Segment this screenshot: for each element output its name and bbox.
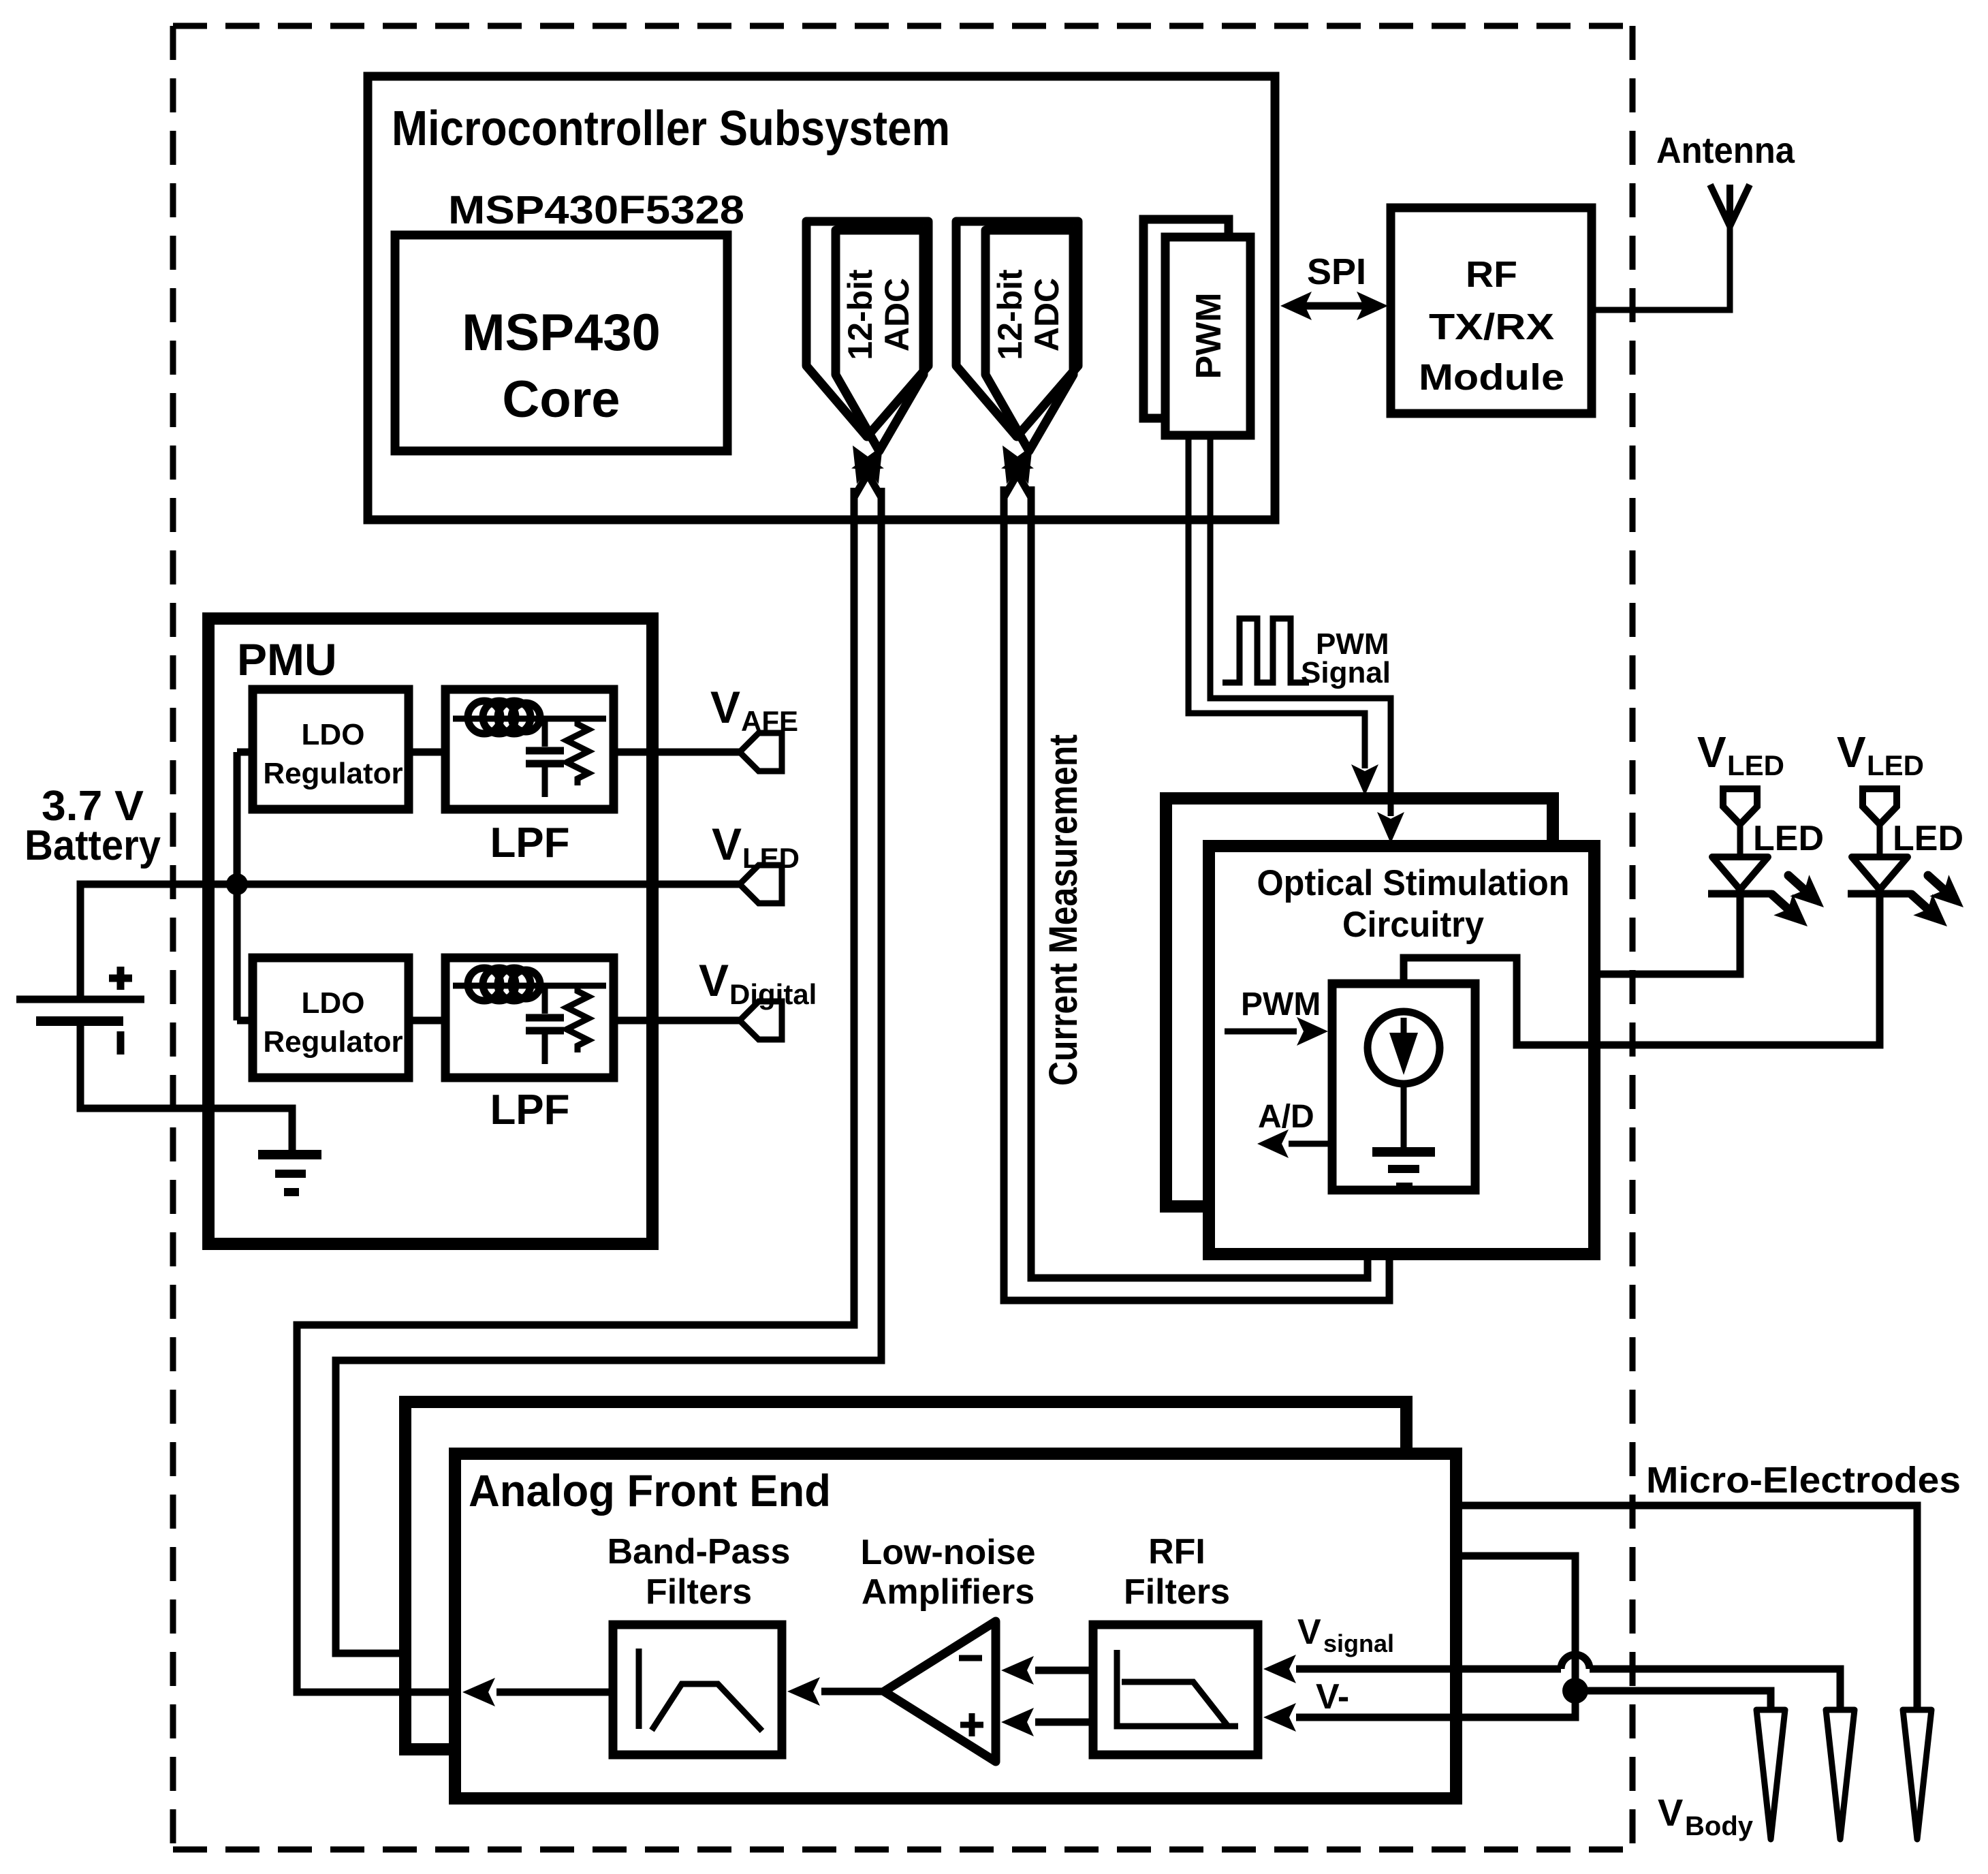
svg-text:PWM: PWM [1189,292,1229,379]
wire BPF output arrow (front channel) [496,1689,613,1696]
wire V- sense from AFE [1456,1556,1575,1689]
Microcontroller Subsystem box [368,76,1275,520]
svg-text:Core: Core [502,371,620,428]
svg-text:LPF: LPF [490,819,569,866]
wire battery+ to PMU rail [80,884,237,996]
node V- junction dot [1562,1678,1588,1704]
svg-text:signal: signal [1323,1629,1394,1657]
svg-text:Microcontroller Subsystem: Microcontroller Subsystem [392,101,950,156]
svg-text:LED: LED [1893,819,1963,858]
LED D1 emission arrows [1779,865,1833,918]
wire ADC2 input A with arrow [1004,463,1024,497]
svg-text:Low-noise: Low-noise [860,1533,1035,1572]
filter LPF2 box [445,958,614,1078]
svg-text:RFI: RFI [1148,1532,1205,1572]
redraw PWM arrow B tip over rear box edge [1388,804,1394,816]
regulator LDO2 [253,958,409,1078]
wire LDO2 to LPF2 [409,1017,445,1025]
svg-text:LPF: LPF [490,1087,569,1134]
svg-text:Digital: Digital [729,978,817,1010]
terminal VLED for D2 [1863,789,1897,824]
svg-text:PMU: PMU [237,634,337,685]
LED D1 diode [1712,857,1768,890]
SPI bus arrow [1293,302,1376,310]
Optical Stimulation Circuitry box (front) [1209,846,1594,1254]
MSP430 Core box U1 [395,235,727,451]
svg-text:AFE: AFE [741,705,798,737]
svg-text:Regulator: Regulator [263,757,403,790]
label RFI Filters [1124,1532,1230,1612]
wire micro-electrodes bus to electrode 3 [1456,1505,1917,1710]
band-pass filter block F1 [613,1625,782,1755]
wire junction to electrode 1 [1575,1691,1771,1710]
resistor R1 [567,719,588,785]
filter LPF1 box [445,689,614,809]
electrode E1 [1756,1710,1785,1839]
svg-text:A/D: A/D [1258,1099,1314,1135]
svg-text:Module: Module [1419,357,1564,398]
wire VLED rail [237,881,740,888]
wire PMU input rail [234,752,241,1020]
inductor L2 [468,968,540,1001]
current source I1 [1368,1012,1440,1084]
svg-text:12-bit: 12-bit [991,269,1029,360]
terminal VAFE [740,733,782,771]
wire LDO1 to LPF1 [409,749,445,756]
svg-text:Signal: Signal [1301,656,1391,689]
svg-text:LDO: LDO [302,986,365,1020]
ground (current source) [1372,1147,1435,1191]
wire LPF2 to VDigital terminal [614,1017,740,1025]
resistor R2 [567,986,588,1052]
current source box U2 [1332,984,1475,1190]
svg-text:Body: Body [1685,1811,1754,1841]
label 12-bit ADC (ADC1) [841,269,916,360]
svg-text:RF: RF [1466,254,1517,295]
LED D2 emission arrows [1919,865,1973,918]
svg-text:Antenna: Antenna [1656,130,1795,171]
svg-text:LDO: LDO [302,718,365,751]
wire RFI to op-amp minus with arrow [1035,1667,1093,1674]
svg-text:Micro-Electrodes: Micro-Electrodes [1646,1460,1961,1501]
RF TX/RX Module box [1391,208,1592,413]
svg-text:V: V [1697,728,1726,777]
wire RF module to antenna [1592,226,1730,310]
Analog Front End box (front) [455,1454,1456,1798]
wire PWM signal B (to front optical block) [1210,439,1391,816]
wire current measurement B (ADC2 right) [1031,486,1368,1278]
terminal VDigital [740,1001,782,1040]
inductor L1 [468,701,540,734]
svg-text:Analog Front End: Analog Front End [469,1465,831,1516]
implant boundary (dashed border) [173,26,1632,1849]
capacitor C2 [526,986,564,1064]
wire PWM input arrow [1225,1029,1297,1035]
terminal VLED [740,865,782,903]
svg-text:ADC: ADC [1028,278,1066,352]
wire LPF1 internal [453,716,606,722]
label Low-noise Amplifiers [860,1533,1035,1612]
electrode E2 [1826,1710,1855,1839]
svg-text:V: V [699,955,729,1005]
svg-text:V: V [710,682,740,732]
wire VLED terminal to D1 anode [1737,824,1744,857]
svg-text:LED: LED [742,842,800,874]
wire PWM signal A (to rear optical block) [1188,439,1365,768]
ADC2 funnel (stacked pair) [956,221,1078,437]
svg-text:Filters: Filters [1124,1572,1230,1612]
wire LPF2 internal [453,983,606,989]
svg-text:V-: V- [1316,1677,1349,1717]
wire current source to ground [1401,1084,1407,1151]
regulator LDO1 [253,689,409,809]
PMU box [208,619,652,1244]
node battery junction dot [226,873,248,895]
wire AFE front output to ADC1 [297,488,854,1692]
svg-text:LED: LED [1753,819,1824,858]
svg-text:V: V [1658,1791,1683,1834]
antenna ANT1 [1710,185,1750,226]
svg-text:V: V [712,819,742,869]
svg-text:12-bit: 12-bit [841,269,879,360]
wire battery- to ground [80,1025,292,1153]
wire AFE rear output to ADC1 [336,488,881,1653]
wire optical output to LED1 [1594,893,1740,974]
svg-text:LED: LED [1867,749,1924,781]
svg-text:ADC: ADC [878,278,916,352]
wire V- from junction to RFI [1296,1689,1575,1717]
battery BT1 3.7V [16,967,144,1055]
wire VLED terminal to D2 anode [1877,824,1883,857]
svg-text:TX/RX: TX/RX [1429,307,1554,347]
svg-text:Regulator: Regulator [263,1025,403,1059]
svg-text:PWM: PWM [1241,986,1321,1022]
svg-text:V: V [1837,728,1866,777]
electrode E3 [1903,1710,1931,1839]
Analog Front End box (rear) [405,1402,1406,1749]
svg-text:Band-Pass: Band-Pass [608,1532,791,1572]
capacitor C1 [526,719,564,797]
ground (PMU) [258,1150,321,1196]
label Band-Pass Filters [608,1532,791,1612]
svg-text:Current Measurement: Current Measurement [1041,734,1086,1086]
wire A/D output arrow [1289,1141,1332,1147]
label 3.7 V Battery [25,783,161,869]
wire LDO1 input stub [237,749,253,756]
Optical Stimulation Circuitry box (rear) [1166,798,1553,1206]
svg-text:Circuitry: Circuitry [1342,905,1484,945]
ADC1 funnel (stacked pair) [806,221,928,437]
wire current source output to LED2 [1404,893,1880,1045]
LED D2 diode [1852,857,1908,890]
wire ADC2 input B with arrow [1011,463,1031,497]
wire RFI to op-amp plus with arrow [1035,1719,1093,1726]
svg-text:Amplifiers: Amplifiers [862,1572,1035,1612]
wire op-amp to BPF with arrow [821,1688,884,1696]
svg-text:LED: LED [1727,749,1784,781]
svg-text:Filters: Filters [646,1572,752,1612]
RFI filter block F2 [1093,1625,1258,1755]
svg-text:MSP430F5328: MSP430F5328 [448,188,744,232]
PWM pulse waveform icon [1222,619,1309,683]
wire ADC1 input A with arrow [854,463,874,497]
svg-text:MSP430: MSP430 [462,304,661,362]
svg-text:V: V [1297,1612,1321,1652]
svg-text:Optical Stimulation: Optical Stimulation [1257,863,1570,903]
wire ADC1 input B with arrow [862,463,881,497]
op-amp A1 [884,1621,996,1762]
wire LDO2 input stub [237,1017,253,1025]
svg-text:SPI: SPI [1307,251,1366,292]
wire LPF1 to VAFE terminal [614,749,740,756]
wire current measurement A (ADC2 left) [1004,486,1389,1300]
label 12-bit ADC (ADC2) [991,269,1066,360]
svg-text:Battery: Battery [25,822,161,869]
terminal VLED for D1 [1723,789,1757,824]
PWM timer block (stacked pair) [1143,219,1229,418]
wire Vsignal with hop [1296,1669,1840,1710]
